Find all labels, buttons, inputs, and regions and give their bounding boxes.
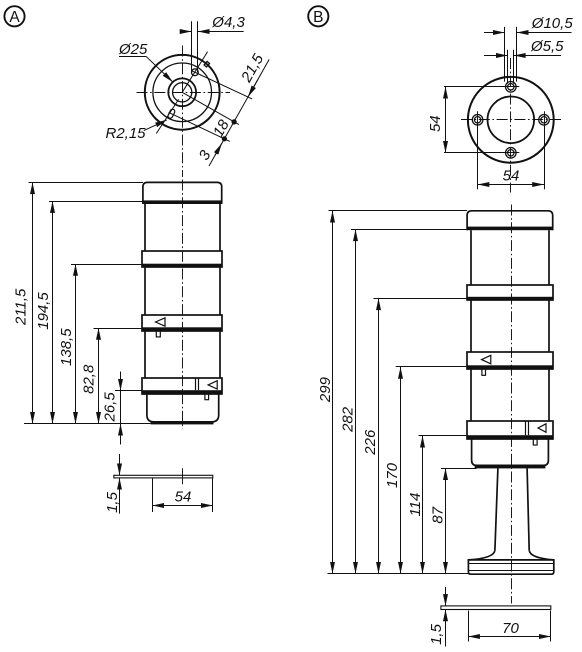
flange hole bottom: [506, 148, 517, 159]
hole tick bottom: [502, 152, 519, 154]
Ø4,3 extension line left: [191, 21, 193, 72]
extension line through slot: [169, 112, 230, 141]
ext line 138,5: [71, 264, 142, 266]
chain dot 1: [232, 119, 237, 124]
tower B ring3: [467, 352, 553, 369]
svg-text:87: 87: [430, 506, 447, 523]
flange hole top Ø10,5: [506, 82, 517, 93]
tower A cap bottom bar: [143, 200, 222, 204]
dim text 211,5: [12, 288, 29, 326]
tower B centerline: [511, 205, 513, 604]
dim text 1,5 (B): [428, 623, 445, 645]
foot disc line 2: [468, 570, 553, 572]
view label B circle: [308, 6, 328, 26]
svg-text:1,5: 1,5: [428, 623, 445, 645]
tower A ring3 triangle: [156, 318, 166, 326]
tower B ring2 bottom bar: [467, 297, 553, 300]
dimension Ø10,5: [484, 32, 505, 34]
tower B base bottom bar: [475, 465, 546, 468]
ext line 87: [441, 468, 477, 470]
dimension 282: [355, 229, 357, 573]
arrow of dim 21,5: [248, 80, 258, 97]
ext line 26,5: [115, 390, 142, 392]
tower B base module: [472, 439, 549, 466]
tower A ring2 bottom bar: [142, 264, 223, 268]
dim text 299: [317, 376, 334, 403]
tower B ring4 divider: [525, 421, 527, 435]
tower B ring3 bottom bar: [467, 365, 553, 369]
tower A module3 sides: [144, 331, 146, 378]
tower A ring4 divider: [195, 378, 197, 391]
svg-text:R2,15: R2,15: [106, 125, 147, 142]
radial line through hole: [182, 52, 207, 93]
hole tick right: [544, 111, 546, 128]
view label A circle: [4, 6, 24, 26]
view A ring circle: [153, 63, 212, 122]
tower A module1 sides: [144, 204, 146, 251]
dimension Ø5,5: [484, 55, 508, 57]
dimension 138,5: [75, 264, 77, 424]
svg-text:82,8: 82,8: [81, 364, 98, 394]
view A mount circle Ø25: [168, 78, 196, 106]
dim text 54 (flange vertical): [427, 115, 444, 132]
view A horizontal centerline: [137, 92, 231, 94]
dim baseline extension A: [24, 423, 151, 425]
flange hole left: [472, 115, 483, 126]
svg-text:Ø4,3: Ø4,3: [211, 14, 245, 31]
tower A ring3 bottom bar: [142, 327, 223, 331]
hole tick left: [477, 111, 479, 128]
ext line 82,8: [94, 328, 142, 330]
svg-text:Ø5,5: Ø5,5: [530, 38, 564, 55]
dim text 87: [430, 506, 447, 523]
svg-text:70: 70: [502, 620, 519, 637]
dim text 18: [210, 117, 233, 140]
view A inner circle: [173, 83, 192, 102]
svg-text:21,5: 21,5: [238, 51, 268, 86]
tab on outer circle: [204, 61, 209, 67]
plate B 70 ext lines: [468, 611, 470, 642]
ext line 226: [374, 298, 468, 300]
tower B module1 sides: [470, 230, 472, 284]
flange hole right: [539, 115, 550, 126]
dim text 138,5: [58, 328, 75, 366]
dimension 70: [468, 636, 551, 638]
oblique chain dimension axis: [209, 59, 269, 166]
hole Ø4,3: [192, 69, 199, 76]
plate B: [441, 606, 551, 610]
plate A dim 1,5 arrows: [119, 454, 121, 475]
tower B ring4 triangle: [538, 424, 546, 433]
tower B ring3 triangle: [482, 355, 491, 364]
foot flare left: [468, 550, 495, 560]
dimension 211,5: [32, 182, 34, 423]
plate A center tick: [182, 468, 184, 484]
chain dot 2: [222, 136, 227, 141]
svg-text:194,5: 194,5: [35, 292, 52, 330]
extension line through hole: [192, 71, 252, 99]
dimension 54 vertical: [445, 87, 447, 153]
view A outer circle (housing): [145, 55, 220, 130]
tower A module2 sides: [144, 267, 146, 315]
svg-text:226: 226: [362, 429, 379, 456]
dim text 170: [384, 462, 401, 488]
leader R2,15 arrow: [144, 120, 167, 131]
svg-text:114: 114: [407, 493, 424, 517]
svg-text:282: 282: [340, 406, 357, 433]
svg-text:299: 299: [317, 376, 334, 403]
flange B vertical centerline: [510, 58, 512, 193]
tower B ring3 tab: [482, 369, 486, 375]
dim text 26,5: [102, 392, 119, 423]
tower B module3 sides: [470, 369, 472, 421]
svg-text:138,5: 138,5: [58, 328, 75, 366]
dim baseline extension B: [328, 573, 469, 575]
tower A ring4: [142, 378, 222, 394]
radial line through slot: [156, 99, 178, 133]
leader Ø25 shoulder: [119, 56, 146, 58]
hole tick top: [502, 86, 519, 88]
dim text 226: [362, 429, 379, 456]
foot disc: [468, 560, 553, 574]
svg-text:170: 170: [384, 462, 401, 488]
dimension 26,5 line: [120, 372, 122, 445]
svg-text:211,5: 211,5: [12, 288, 29, 326]
dimension 170: [400, 367, 402, 574]
svg-text:B: B: [313, 9, 323, 26]
dimension 26,5 arrows: [120, 376, 122, 391]
dimension 87: [445, 468, 447, 573]
flange B outer circle: [468, 77, 554, 163]
foot disc line 1: [468, 563, 553, 565]
dimension 194,5: [52, 201, 54, 424]
dim text 114: [407, 493, 424, 517]
tower B ring4 bottom bar: [467, 435, 553, 439]
tower A base module: [147, 394, 219, 422]
tower B ring2: [467, 285, 553, 300]
flange B inner circle: [488, 97, 535, 144]
plate A 54 ext lines: [152, 479, 154, 513]
ext line 282: [351, 229, 471, 231]
ext line 170: [396, 366, 467, 368]
flange B horizontal centerline: [461, 119, 562, 121]
svg-text:1,5: 1,5: [104, 491, 121, 513]
leader Ø25 arrow: [146, 56, 173, 82]
tower A ring3: [142, 315, 222, 331]
Ø5,5 extension lines: [507, 50, 509, 84]
dimension 54 (A plate): [152, 505, 213, 507]
dimension 299: [332, 211, 334, 574]
svg-text:A: A: [9, 9, 20, 26]
ext line 299: [329, 210, 468, 212]
tower B cap: [467, 211, 553, 230]
dimension 226: [378, 298, 380, 573]
dimension 82,8: [98, 328, 100, 424]
svg-text:Ø25: Ø25: [118, 41, 148, 58]
plate A: [114, 475, 213, 478]
svg-text:54: 54: [427, 115, 444, 132]
dim text 1,5 (A): [104, 491, 121, 513]
svg-text:Ø10,5: Ø10,5: [531, 15, 574, 32]
slot R2,15: [167, 108, 175, 119]
svg-text:26,5: 26,5: [102, 392, 119, 423]
tower B cap bottom bar: [467, 227, 553, 231]
tower A ring4 bottom bar: [142, 390, 223, 394]
pole left side: [495, 468, 498, 550]
dimension 114: [422, 436, 424, 574]
dim text 3: [196, 147, 215, 163]
ext line 211,5: [29, 182, 143, 184]
dim text 21,5: [238, 51, 268, 86]
dim text 282: [340, 406, 357, 433]
tower A ring3 tab: [156, 331, 160, 337]
tower A bottom bar: [151, 422, 214, 425]
Ø4,3 dimension arrows: [181, 31, 192, 33]
dim text 82,8: [81, 364, 98, 394]
ext line 114: [419, 435, 468, 437]
view A vertical centerline: [182, 46, 184, 178]
tower A ring4 triangle: [208, 381, 217, 389]
extension line through center: [182, 92, 239, 124]
Ø10,5 extension lines: [504, 27, 506, 82]
vertical 54 ext lines: [444, 86, 505, 88]
svg-text:54: 54: [503, 168, 520, 185]
pole right side: [527, 468, 529, 550]
dimension 54 horizontal: [478, 184, 544, 186]
svg-text:54: 54: [175, 489, 192, 506]
tower B ring4 tab: [533, 439, 537, 445]
svg-text:18: 18: [210, 117, 233, 140]
ext line 194,5: [49, 201, 145, 203]
foot flare right: [529, 550, 554, 560]
tower A ring2: [142, 251, 222, 267]
tower B module2 sides: [470, 300, 472, 352]
tower A centerline: [182, 180, 184, 430]
outside arrow of dim 3: [215, 143, 222, 155]
tower A cap: [143, 182, 222, 204]
tower A ring4 tab: [205, 394, 209, 400]
plate B dim 1,5 arrows: [445, 587, 447, 606]
dim text 194,5: [35, 292, 52, 330]
horizontal 54 ext lines: [477, 126, 479, 189]
Ø4,3 extension line right: [197, 21, 199, 72]
tower B ring4: [467, 421, 553, 439]
